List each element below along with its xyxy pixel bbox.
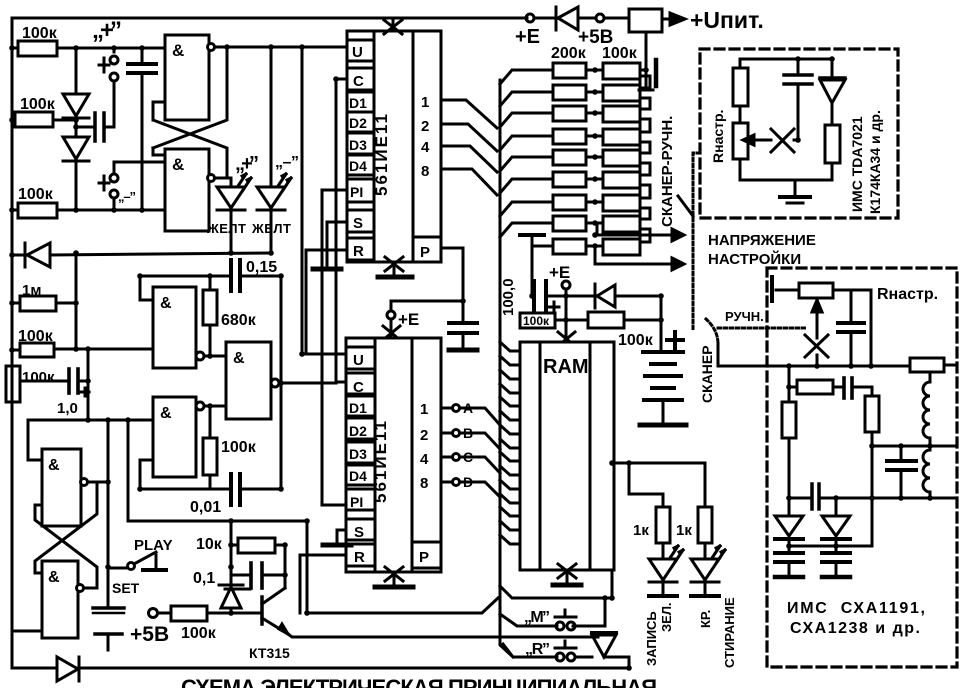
svg-text:2: 2	[420, 427, 428, 444]
capacitor C2	[76, 113, 114, 141]
inductor CXA L1	[923, 382, 930, 438]
resistor 100k R1 top-left	[12, 25, 167, 56]
wire ladder row9 left	[532, 245, 553, 248]
terminal +E mid	[549, 263, 570, 340]
svg-text:+5В: +5В	[130, 623, 169, 646]
svg-text:4: 4	[420, 451, 429, 468]
wire y521	[128, 520, 307, 523]
svg-text:SET: SET	[112, 580, 140, 596]
wire y598	[500, 586, 612, 598]
resistor TDA R right	[825, 125, 840, 180]
resistor CXA R2 horizontal	[789, 380, 843, 394]
svg-text:„+”: „+”	[92, 17, 122, 44]
capacitor TDA C1	[784, 59, 812, 140]
label plus battery	[667, 332, 683, 348]
svg-text:0,1: 0,1	[193, 570, 215, 587]
svg-text:S: S	[353, 215, 363, 232]
svg-text:U: U	[352, 44, 363, 61]
capacitor C4 0,15	[140, 259, 281, 291]
svg-text:К174КА34 и др.: К174КА34 и др.	[867, 110, 883, 214]
svg-text:680к: 680к	[221, 312, 257, 329]
svg-text:4: 4	[421, 139, 430, 156]
svg-text:ЖЕЛТ: ЖЕЛТ	[206, 221, 246, 236]
svg-text:ЗЕЛ.: ЗЕЛ.	[659, 602, 674, 632]
resistor 100k R13	[158, 606, 258, 642]
wire vertical x88	[87, 349, 90, 420]
resistor 10k R12	[196, 521, 284, 567]
wire IC1 S ground stem	[327, 222, 347, 266]
wire left border	[11, 18, 14, 668]
wire M button row	[500, 614, 557, 626]
diode VD3 horizontal	[12, 243, 271, 267]
svg-text:561ИЕ11: 561ИЕ11	[372, 112, 391, 196]
svg-text:+5В: +5В	[578, 27, 613, 48]
wire IC1 R	[306, 250, 347, 352]
svg-text:D1: D1	[349, 95, 367, 111]
resistor 1k R10	[633, 507, 670, 558]
capacitor C5 0,01	[140, 474, 281, 516]
resistor 680k R7	[203, 276, 257, 356]
node A output	[441, 400, 500, 425]
wire fuse down	[645, 32, 648, 70]
svg-text:1,0: 1,0	[57, 400, 78, 417]
svg-text:СКАНЕР-РУЧН.: СКАНЕР-РУЧН.	[659, 116, 676, 227]
wire IC1 out 8	[441, 169, 497, 195]
pushbutton R	[525, 641, 576, 661]
svg-text:100к: 100к	[18, 186, 54, 203]
X mark IC2 bottom with ground	[375, 567, 413, 587]
svg-text:C: C	[353, 73, 364, 90]
wire fan ladder row3	[500, 113, 553, 127]
capacitor antenna plate	[772, 277, 799, 301]
junction dot LED wire	[626, 460, 632, 466]
arrow +Upit	[662, 7, 764, 33]
wire M button right	[573, 598, 605, 626]
varicap CXA VD2	[822, 498, 850, 577]
fuse box top right	[629, 9, 662, 32]
svg-text:D2: D2	[349, 423, 367, 439]
diode VD2	[63, 118, 89, 210]
potentiometer TDA	[733, 123, 767, 180]
wire TDA bottom rail	[740, 179, 832, 182]
capacitor C9 0,1	[193, 563, 285, 589]
wire top border	[12, 17, 527, 20]
svg-text:КР.: КР.	[698, 610, 713, 628]
wire RAM to LEDs y463	[612, 463, 705, 507]
svg-text:D1: D1	[349, 400, 367, 416]
resistor 100k R2	[12, 96, 76, 127]
wire clock vertical x336	[336, 79, 347, 382]
capacitor CXA C3	[887, 446, 916, 498]
wire fan ladder row4	[500, 136, 553, 150]
wire IC1 out 1	[441, 100, 497, 128]
svg-text:„–”: „–”	[275, 154, 299, 171]
diode VD8 bottom left	[57, 657, 79, 681]
svg-text:P: P	[419, 549, 429, 566]
wire fan ladder row8	[500, 223, 553, 237]
svg-text:&: &	[160, 295, 172, 312]
svg-text:PI: PI	[350, 184, 363, 200]
wire CXA right drop	[870, 290, 873, 366]
svg-text:561ИЕ11: 561ИЕ11	[371, 419, 390, 503]
svg-text:ЗАПИСЬ: ЗАПИСЬ	[644, 611, 659, 666]
wire CXA tuning bus	[767, 365, 910, 368]
counter IC1 561IE11	[347, 31, 441, 262]
svg-text:КТ315: КТ315	[249, 645, 290, 661]
resistor ladder 100k row6	[586, 172, 640, 188]
svg-text:РУЧН.: РУЧН.	[725, 309, 764, 324]
svg-text:100к: 100к	[22, 25, 58, 42]
wire IC2 S ground stem	[337, 530, 346, 542]
svg-text:8: 8	[421, 163, 429, 180]
resistor 100k R8	[203, 406, 257, 489]
resistor CXA R left vertical	[782, 402, 796, 498]
switch PLAY-SET	[108, 537, 173, 596]
diode TDA VD	[820, 59, 845, 125]
ground IC2 S	[323, 543, 351, 548]
node C output	[441, 449, 500, 473]
capacitor CXA C2	[844, 378, 872, 398]
diode VD4 top	[534, 7, 596, 30]
svg-text:СХЕМА ЭЛЕКТРИЧЕСКАЯ ПРИНЦИПИ: СХЕМА ЭЛЕКТРИЧЕСКАЯ ПРИНЦИПИАЛЬНАЯ	[181, 675, 657, 688]
terminal +E IC2	[387, 301, 419, 329]
transistor KT315	[249, 545, 598, 661]
svg-text:D2: D2	[349, 115, 367, 131]
resistor ladder 100k row1	[586, 63, 646, 79]
resistor 100k R5	[12, 328, 153, 357]
wire ladder series links right	[640, 76, 650, 242]
svg-text:0,01: 0,01	[190, 499, 221, 516]
resistor TDA R top	[733, 59, 748, 123]
svg-text:1: 1	[420, 401, 428, 418]
svg-text:ИМС СХА1191,: ИМС СХА1191,	[787, 600, 925, 617]
svg-text:+E: +E	[515, 26, 540, 48]
svg-text:100к: 100к	[22, 369, 55, 386]
resistor R9 backup	[566, 312, 661, 328]
svg-text:8: 8	[420, 475, 428, 492]
svg-text:D4: D4	[349, 468, 367, 484]
resistor ladder 100k row4	[586, 129, 640, 145]
resistor 100k R3	[12, 186, 165, 218]
resistor CXA R3 vertical	[865, 387, 879, 446]
svg-text:2: 2	[421, 118, 429, 135]
LED yellow HL1	[217, 174, 251, 253]
logic gate DD2.3	[226, 342, 336, 419]
X mark IC1 top	[384, 18, 402, 34]
svg-text:0,15: 0,15	[246, 259, 277, 276]
svg-text:&: &	[172, 155, 184, 174]
resistor ladder 100k row2	[586, 85, 640, 101]
wire dotted ruchn line	[718, 327, 808, 330]
svg-text:ИМС TDA7021: ИМС TDA7021	[849, 116, 865, 212]
resistor ladder 200k row5	[553, 150, 586, 165]
svg-text:„–”: „–”	[118, 189, 136, 204]
svg-text:C: C	[353, 379, 364, 396]
wire y613 to trunk	[307, 598, 498, 613]
wire node to gate B input	[114, 161, 165, 164]
svg-text:СКАНЕР: СКАНЕР	[699, 345, 715, 403]
svg-text:S: S	[354, 524, 364, 541]
pushbutton SB1	[99, 48, 118, 127]
X mark IC2 top	[383, 326, 400, 340]
wire x305 drop	[306, 521, 309, 613]
wire gate B output to LED1	[227, 178, 231, 186]
wire L1 top	[929, 372, 932, 382]
wire fan ladder row7	[500, 202, 553, 216]
logic gate DD1.3	[42, 449, 108, 526]
wire gate A output vertical to LED2	[270, 47, 273, 186]
wire varicap link	[789, 446, 872, 546]
ground C6	[449, 348, 477, 353]
svg-text:100к: 100к	[221, 439, 257, 456]
logic gate DD2.1 oscillator	[140, 276, 226, 368]
wire RAM right corner drop	[611, 570, 614, 598]
wire TDA top rail	[740, 58, 832, 61]
svg-text:СХА1238 и др.: СХА1238 и др.	[790, 620, 920, 637]
terminal +5V top	[578, 14, 629, 48]
LED yellow HL2	[257, 174, 291, 253]
capacitor C3 1,0 polarized	[20, 369, 89, 417]
wire IC1 C pin	[336, 78, 347, 81]
resistor ladder 100k row9	[586, 239, 640, 255]
dashed box TDA7021	[700, 49, 898, 218]
wire CXA y446	[872, 445, 957, 448]
capacitor CXA C4 series	[812, 484, 819, 509]
wire node 10k-0,1	[230, 567, 233, 585]
svg-text:R: R	[354, 549, 365, 566]
dashed box CXA1191	[767, 268, 957, 667]
wire vertical x75 mid-left	[75, 253, 78, 349]
svg-text:R: R	[353, 243, 364, 260]
capacitor filter top right	[639, 60, 656, 90]
wire x28 elbow to gate E	[28, 420, 42, 460]
svg-text:100к: 100к	[20, 96, 56, 113]
terminal +5V input	[130, 609, 169, 647]
svg-text:„+”: „+”	[235, 153, 259, 175]
svg-text:P: P	[420, 244, 430, 261]
resistor ladder 200k row9	[553, 239, 586, 254]
zener diode VD7	[219, 585, 243, 613]
svg-text:PLAY: PLAY	[134, 537, 173, 554]
X mark IC1 bottom with ground	[378, 257, 412, 277]
wire y420 SET line	[28, 419, 153, 422]
arrow scanner voltage 1	[597, 223, 684, 241]
resistor 100k boxed label	[520, 313, 566, 328]
svg-text:1к: 1к	[633, 522, 649, 539]
resistor 1M R4	[12, 282, 76, 311]
svg-text:10к: 10к	[196, 536, 223, 553]
counter IC2 561IE11	[346, 338, 441, 572]
RAM block	[520, 342, 614, 570]
wire gate A output long vertical L1	[302, 47, 347, 354]
svg-text:&: &	[160, 405, 172, 422]
resistor ladder 100k row5	[586, 150, 640, 166]
wire RAM address fan	[500, 342, 520, 544]
capacitor C6 decoupling	[449, 323, 477, 347]
resistor ladder 200k row4	[553, 129, 586, 144]
wire L2 ends	[929, 492, 932, 498]
wire battery top	[660, 296, 663, 352]
logic gate DD1.2	[153, 148, 215, 231]
X mark RAM bottom with ground	[553, 564, 581, 585]
wire dashed pointer skaner-ruchn	[678, 196, 693, 216]
capacitor C8	[93, 608, 124, 650]
resistor 100k R6 vertical on border	[6, 366, 55, 402]
wire x128 riser	[127, 420, 130, 521]
logic gate DD2.2 oscillator	[140, 397, 226, 489]
svg-text:U: U	[353, 352, 364, 369]
wire PI tie vertical x322	[322, 190, 347, 505]
resistor ladder 200k row3	[553, 106, 586, 121]
svg-text:PI: PI	[350, 494, 363, 510]
svg-text:RAM: RAM	[543, 356, 589, 378]
wire ladder bottom to ground cap	[531, 246, 534, 296]
wire y545 transistor to 10k	[284, 544, 285, 547]
wire dotted arc switch	[706, 319, 718, 344]
wire CXA y498	[789, 497, 810, 500]
pushbutton M	[524, 609, 576, 630]
capacitor C7 100,0	[532, 281, 566, 312]
svg-text:+Uпит.: +Uпит.	[690, 7, 764, 33]
logic gate DD1.4	[12, 561, 84, 638]
wire fan ladder row5	[500, 157, 553, 171]
wire IC2 R	[300, 555, 347, 613]
logic gate DD1.1	[153, 35, 347, 120]
svg-text:D3: D3	[349, 446, 367, 462]
svg-text:„М”: „М”	[524, 609, 550, 626]
svg-text:&: &	[48, 457, 60, 474]
wire +E node IC2	[391, 300, 463, 303]
wire LED branch 1	[629, 463, 663, 507]
varicap CXA VD1	[775, 498, 803, 577]
svg-text:&: &	[172, 41, 184, 60]
diode VD6	[575, 633, 629, 657]
wire CXA left drop	[788, 366, 791, 402]
svg-text:1к: 1к	[676, 522, 692, 539]
svg-text:&: &	[233, 350, 245, 367]
wire IC1 P carry	[441, 248, 463, 322]
resistor CXA R right	[910, 358, 957, 372]
LED erase red HL4	[691, 546, 725, 596]
svg-text:СТИРАНИЕ: СТИРАНИЕ	[722, 597, 737, 668]
resistor ladder 100k row3	[586, 106, 640, 122]
wire scanner to box	[718, 344, 767, 366]
svg-text:ЖЕЛТ: ЖЕЛТ	[251, 221, 291, 236]
wire bottom border	[12, 657, 629, 668]
LED record green HL3	[649, 546, 683, 596]
wire fan ladder row1	[500, 70, 553, 84]
wire trunk bus	[500, 80, 513, 657]
svg-text:100,0: 100,0	[500, 278, 517, 316]
wire cross-coupling DD1.3-4	[35, 482, 97, 588]
svg-text:D4: D4	[349, 158, 367, 174]
node B output	[441, 425, 500, 449]
svg-text:1: 1	[421, 94, 429, 111]
inductor CXA L2	[923, 450, 930, 492]
wire feedback vertical x281	[280, 276, 283, 489]
wire SET vertical	[107, 420, 110, 605]
arrow scanner voltage 2	[595, 246, 684, 270]
wire IC1 out 4	[441, 146, 497, 172]
resistor 1k R11	[676, 507, 712, 558]
svg-text:„R”: „R”	[525, 641, 550, 658]
resistor ladder 200k row2	[553, 85, 586, 100]
svg-text:100к: 100к	[181, 625, 217, 642]
svg-text:100к: 100к	[523, 314, 550, 328]
svg-text:НАПРЯЖЕНИЕ: НАПРЯЖЕНИЕ	[708, 232, 816, 249]
wire dotted scanner line	[693, 153, 700, 332]
ground IC1 S	[313, 267, 341, 272]
wire fan ladder row2	[500, 92, 553, 106]
resistor ladder 200k row6	[553, 172, 586, 187]
resistor ladder 200k row7	[553, 195, 586, 210]
junction dots ladder	[592, 67, 598, 249]
diode VD1	[63, 48, 89, 118]
varicap X TDA	[767, 129, 798, 152]
terminal +E top	[515, 14, 540, 48]
svg-text:Rнастр.: Rнастр.	[877, 286, 938, 303]
wire cross-coupling DD1	[153, 47, 227, 178]
capacitor C1 top	[128, 48, 156, 210]
wire fan ladder row6	[500, 179, 553, 193]
svg-text:+E: +E	[549, 263, 570, 282]
wire IC1 out 2	[441, 124, 497, 151]
capacitor plate bar x532	[520, 233, 544, 237]
resistor ladder 200k row1	[553, 63, 586, 78]
ground TDA	[780, 180, 810, 203]
resistor ladder 100k row7	[586, 195, 640, 211]
resistor ladder 100k row8	[586, 216, 640, 232]
svg-text:&: &	[48, 569, 60, 586]
wire R button row	[503, 644, 557, 657]
pushbutton SB2	[99, 162, 136, 210]
resistor ladder 200k row8	[553, 216, 586, 231]
capacitor CXA C1	[838, 290, 864, 366]
svg-text:100к: 100к	[618, 332, 654, 349]
battery GB1	[640, 352, 686, 425]
potentiometer CXA	[799, 283, 871, 333]
svg-text:Rнастр.: Rнастр.	[710, 110, 726, 163]
svg-text:D3: D3	[349, 137, 367, 153]
diode VD5 backup	[566, 284, 661, 308]
svg-text:НАСТРОЙКИ: НАСТРОЙКИ	[708, 250, 801, 268]
node D output	[441, 474, 500, 497]
varicap X CXA	[805, 333, 828, 366]
X mark RAM top	[558, 332, 575, 346]
